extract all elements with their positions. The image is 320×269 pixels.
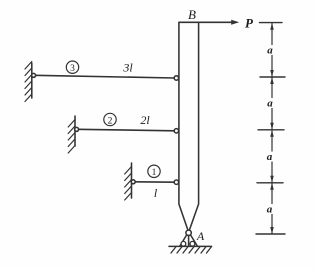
dimension arrowheads [270, 23, 274, 233]
bar 3 [34, 75, 175, 78]
label circled 2 [104, 113, 116, 125]
column BA [179, 22, 199, 229]
svg-text:3: 3 [70, 64, 75, 74]
svg-text:a: a [267, 151, 273, 163]
label circled 1 [148, 165, 160, 177]
support wall 3 [31, 63, 33, 98]
dimension tick y130 [258, 129, 284, 131]
svg-text:A: A [196, 229, 205, 243]
svg-text:1: 1 [152, 168, 157, 178]
dimension label a4 [265, 204, 274, 214]
dimension label a1 [266, 45, 275, 55]
support wall 2 [74, 116, 76, 146]
bar 2 [77, 129, 175, 131]
hinge bar1-column [174, 180, 178, 184]
svg-text:a: a [267, 204, 273, 216]
ground line [169, 245, 212, 247]
svg-text:a: a [267, 45, 273, 57]
svg-text:2l: 2l [140, 113, 150, 127]
pin support A [180, 235, 198, 246]
dimension label a2 [266, 98, 275, 108]
hinge bar1-wall [131, 180, 135, 184]
bar 1 [134, 181, 175, 183]
svg-text:l: l [154, 186, 158, 200]
dimension tick y77 [260, 76, 285, 78]
support wall 1 [131, 163, 133, 198]
dimension tick bottom [256, 233, 285, 235]
hinge bar3-wall [32, 73, 36, 77]
svg-text:2: 2 [108, 116, 113, 126]
dimension tick y183 [257, 182, 283, 184]
hinge bar2-wall [75, 127, 79, 131]
dimension tick top [260, 22, 283, 24]
svg-text:a: a [267, 98, 273, 110]
hinge bar2-column [174, 129, 178, 133]
svg-text:B: B [188, 7, 196, 22]
svg-text:P: P [245, 16, 254, 31]
dimension line vertical [271, 23, 273, 234]
svg-text:3l: 3l [122, 61, 133, 75]
dimension label a3 [265, 152, 274, 162]
label circled 3 [66, 61, 78, 73]
ground hatching [171, 247, 212, 253]
hinge bar3-column [174, 76, 178, 80]
force P arrow [200, 21, 235, 23]
